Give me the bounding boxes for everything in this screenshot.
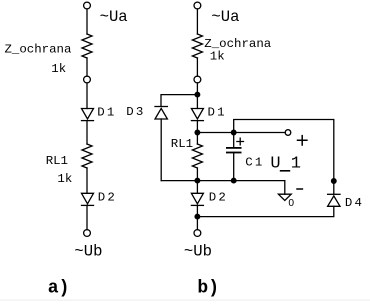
junction dot bottom rail (195, 214, 200, 219)
wire bottom rail to D4 (197, 206, 333, 216)
svg-text:~Ub: ~Ub (74, 242, 102, 260)
svg-text:1k: 1k (210, 50, 225, 64)
mid terminal node (circuit b) (194, 76, 201, 83)
terminal Ub (circuit b) (194, 230, 201, 237)
wire plus node to output terminal (197, 132, 285, 134)
svg-text:D1: D1 (97, 105, 116, 119)
diode D1 (circuit b) (191, 109, 203, 121)
svg-text:a): a) (48, 279, 70, 299)
svg-text:D2: D2 (98, 191, 117, 205)
svg-text:RL1: RL1 (171, 137, 193, 151)
svg-text:D1: D1 (208, 105, 227, 119)
capacitor C1 (227, 148, 241, 153)
diode D1 (circuit a) (82, 109, 94, 121)
wire C1 bottom to lower node (233, 153, 235, 181)
svg-text:Z_ochrana: Z_ochrana (5, 42, 72, 56)
svg-text:1k: 1k (51, 62, 66, 76)
diode D4 (328, 194, 340, 206)
svg-text:D3: D3 (126, 105, 145, 119)
minus sign at ground (297, 188, 302, 190)
junction dot at D3 branch (195, 92, 200, 97)
wire ground stem (284, 181, 286, 195)
wire Z_ochrana to mid terminal (b) (196, 58, 198, 76)
mid terminal node (circuit a) (84, 76, 91, 83)
lower node wire to ground branch (161, 180, 285, 182)
resistor Z_ochrana (circuit a) (82, 34, 92, 58)
resistor RL1 (circuit a) (82, 144, 92, 168)
terminal Ua (circuit b) (194, 2, 201, 9)
svg-text:D4: D4 (345, 196, 364, 210)
svg-text:RL1: RL1 (46, 154, 68, 168)
wire D1 to RL1 (86, 121, 88, 144)
junction dot lower node at RL1 (195, 178, 200, 183)
output terminal plus (285, 130, 291, 136)
junction dot plus node at RL1 top (195, 130, 200, 135)
svg-text:b): b) (197, 279, 219, 299)
diode D3 (155, 107, 167, 120)
resistor Z_ochrana (circuit b) (192, 34, 202, 58)
terminal Ub (circuit a) (84, 230, 91, 237)
wire junction to D3 branch (161, 95, 197, 107)
wire terminal to Z_ochrana (b) (196, 9, 198, 34)
faint separator line at bottom (0, 300, 370, 301)
svg-text:1k: 1k (57, 172, 72, 186)
svg-text:~Ub: ~Ub (184, 242, 212, 260)
wire RL1 bottom to lower node (b) (196, 168, 198, 193)
plus sign at output (298, 136, 307, 145)
svg-text:0: 0 (288, 198, 294, 209)
diode D2 (circuit b) (191, 193, 203, 205)
svg-text:C1: C1 (245, 156, 264, 170)
wire terminal to Z_ochrana (86, 9, 88, 34)
resistor RL1 (circuit b) (192, 144, 202, 168)
junction dot at C1 top branch (231, 130, 236, 135)
wire D1 to plus node (b) (196, 121, 198, 144)
junction dot lower node at C1 (231, 178, 236, 183)
svg-text:~Ua: ~Ua (100, 8, 128, 26)
wire D2 to bottom rail (b) (196, 205, 198, 229)
ground symbol 0 (278, 194, 291, 200)
wire top rail from C1 node over to D4 cathode rail (234, 120, 334, 195)
wire mid terminal through junction to D1 (b) (196, 83, 198, 109)
wire D3 anode down to lower node (160, 119, 162, 181)
wire RL1 to D2 (86, 168, 88, 193)
wire Z_ochrana to mid terminal (86, 58, 88, 76)
svg-text:D2: D2 (209, 191, 228, 205)
terminal Ua (circuit a) (84, 2, 91, 9)
diode D2 (circuit a) (82, 193, 94, 205)
svg-text:~Ua: ~Ua (211, 8, 239, 26)
wire D2 to bottom terminal (86, 205, 88, 229)
wire mid terminal to D1 (86, 83, 88, 109)
polarity plus of C1 (237, 138, 244, 145)
junction dot on D4 rail (332, 179, 337, 184)
